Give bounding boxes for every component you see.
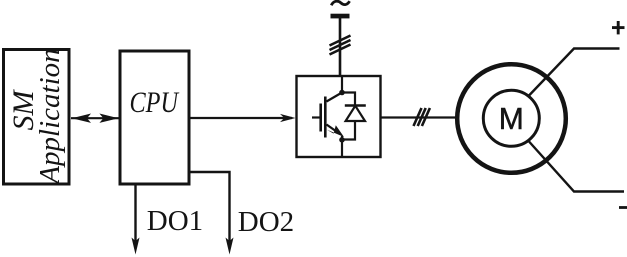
svg-text:DO1: DO1 — [147, 205, 203, 237]
svg-text:DO2: DO2 — [238, 206, 294, 238]
svg-text:M: M — [499, 102, 524, 137]
svg-text:Application: Application — [34, 48, 66, 185]
svg-text:CPU: CPU — [130, 86, 180, 119]
